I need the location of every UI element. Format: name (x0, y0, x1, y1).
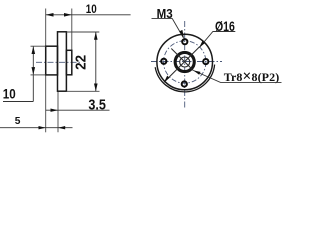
leader of Ø16 (200, 32, 236, 48)
stub rectangle (66, 50, 71, 75)
bottom extension line of 22 (66, 90, 99, 92)
svg-text:5: 5 (15, 116, 21, 127)
diagonal line NW-SE through center (171, 49, 193, 71)
wire: flange-left extension line x=58.0 (for 3.5 / 5 dims) (57, 91, 59, 132)
arrow down of 22 (94, 84, 98, 92)
arrowhead of Ø16 leader (199, 41, 205, 48)
diagonal line NE-SW through center (164, 47, 199, 82)
arrowhead of M3 leader (179, 30, 184, 39)
center thread ring outer circle (175, 52, 195, 72)
arrow right-pointing of 3.5 (51, 109, 59, 112)
dimension 5 (bottom): dim line (0, 127, 73, 129)
arrow pointing right at left ext (outside) (39, 126, 46, 129)
svg-text:10: 10 (86, 3, 97, 16)
dimension 22 (right vertical): top extension line (66, 31, 99, 33)
horizontal centerline of front view (151, 61, 222, 63)
arrow left of top dim (46, 13, 54, 17)
leader of M3 (152, 19, 184, 38)
arrowhead at SW end of diagonal (164, 76, 170, 83)
arrow up of Ø10 dim (32, 46, 36, 54)
svg-text:10: 10 (3, 85, 16, 101)
arrow right of top dim (64, 13, 72, 17)
body Ø10 cylinder rectangle (46, 46, 58, 75)
M3 hole right (203, 59, 208, 64)
M3 hole top (182, 39, 187, 44)
arrow up of 22 (94, 32, 98, 40)
wire: left extension line x=45.7 (top dim + bottom dims) (45, 9, 47, 133)
vertical centerline of front view (184, 21, 186, 108)
arrowhead of Tr8 leader (193, 70, 200, 74)
flange rectangle (58, 32, 67, 91)
flange outer circle (157, 34, 213, 90)
dimension Ø10 (left vertical): dim line (32, 46, 34, 101)
outer bottom arc (second outline) (155, 65, 214, 92)
extension line bottom of Ø10 (31, 74, 46, 76)
center thread ring inner circle (176, 53, 194, 71)
extension line top of Ø10 (31, 45, 46, 47)
svg-text:3.5: 3.5 (88, 97, 106, 113)
bolt circle Ø16 (dash-dot) (164, 41, 206, 83)
arrow down of Ø10 dim (32, 67, 36, 75)
leader of Tr8×8(P2) (193, 70, 281, 82)
dim line of 22 (95, 32, 97, 91)
arrow pointing left at right ext (outside) (58, 126, 65, 129)
centerline: part axis (dash-dot) (36, 61, 82, 63)
M3 hole left (161, 59, 166, 64)
dimension 10 (top, total length): line (46, 14, 131, 16)
wire: right extension line x=72.0 for top dimension (71, 9, 73, 51)
dimension 3.5: dim line (46, 109, 110, 111)
leader of label 10 (bottom left) (3, 101, 33, 103)
svg-text:22: 22 (72, 55, 89, 70)
center bore circle (180, 57, 190, 67)
M3 hole bottom (182, 81, 187, 86)
